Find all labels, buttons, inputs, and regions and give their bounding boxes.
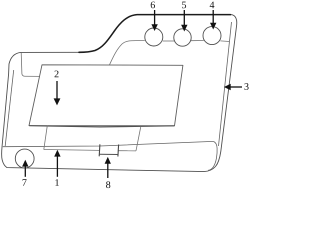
front panel bottom edge right of tab [119, 150, 137, 152]
arrow 3 [224, 84, 242, 90]
label 1 [55, 179, 59, 186]
arrow 1 [54, 150, 60, 177]
arrow 8 [105, 157, 111, 178]
front face right corner curve [208, 141, 217, 170]
deck line right of button 4 [220, 40, 229, 43]
front panel seam left (D1) [44, 126, 48, 150]
arrow 5 [181, 10, 187, 32]
label 2 [55, 71, 59, 78]
deck line between button 6 and 5 [163, 40, 174, 42]
front panel bottom edge left of tab [44, 149, 100, 152]
button 6 circle [145, 28, 163, 46]
corner seam below top edge [21, 53, 25, 77]
inner right shell edge [219, 22, 232, 146]
connector tab 8 left bar [98, 144, 101, 156]
screen bottom edge emphasis [29, 126, 174, 127]
arrow 6 [151, 10, 157, 31]
top dark edge (bold sigmoid + top rim) [79, 15, 231, 53]
label 8 [106, 181, 110, 188]
front panel seam right (D2) [136, 127, 141, 151]
label 5 [182, 2, 186, 9]
arrow 4 [210, 10, 216, 30]
inner left shell edge [5, 70, 14, 146]
label 3 [244, 83, 248, 90]
label 7 [23, 179, 27, 186]
body outer silhouette [2, 15, 237, 172]
connector tab 8 bottom edge [99, 153, 118, 155]
screen (display 2) [29, 65, 183, 126]
front top edge [3, 141, 214, 146]
arrow 7 [22, 160, 28, 177]
label 6 [151, 2, 155, 9]
label 4 [210, 2, 215, 9]
deck step left segment [25, 75, 40, 77]
button 5 circle [174, 29, 191, 46]
connector tab 8 right bar [117, 145, 120, 157]
button 4 circle [203, 27, 221, 45]
button 7 circle [15, 149, 34, 168]
inner sigmoid deck curve rising to buttons [110, 41, 145, 65]
arrow 2 [54, 81, 61, 105]
deck line between button 5 and 4 [191, 40, 204, 42]
